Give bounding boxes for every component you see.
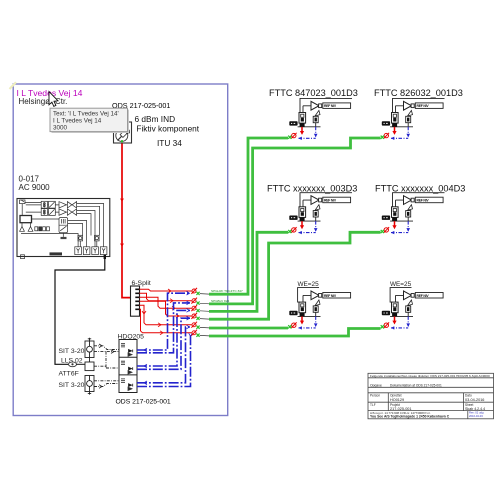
svg-text:03-04-2016: 03-04-2016: [465, 398, 484, 402]
svg-text:Person: Person: [370, 394, 380, 398]
svg-text:FTTC xxxxxxx_004D3: FTTC xxxxxxx_004D3: [375, 183, 465, 193]
amp triangles row A: [59, 202, 66, 208]
green wire B to FTTC 826032: [209, 138, 381, 304]
svg-text:HO0129: HO0129: [390, 398, 404, 402]
green wire C to FTTC x003: [209, 232, 288, 311]
small dark label: [61, 237, 67, 239]
svg-text:Dokumentation af ODS 217-025-0: Dokumentation af ODS 217-025-001: [390, 383, 442, 387]
svg-text:SIT 3-20: SIT 3-20: [59, 382, 85, 389]
blue bus arrows: [187, 291, 193, 336]
node splice 2: [191, 298, 209, 305]
green wire F to WE25 right: [209, 329, 381, 337]
internal wiring: [22, 203, 59, 220]
power supply rect: [20, 216, 32, 223]
node splice 4: [191, 313, 209, 320]
svg-text:3000: 3000: [53, 124, 68, 131]
amplifier AC9000 detail box: [17, 199, 110, 259]
black dash-dot links SIT->HDO: [94, 346, 119, 387]
HDO205 inner symbols: [121, 344, 133, 391]
svg-text:I L Tvedes Vej 14: I L Tvedes Vej 14: [53, 117, 102, 124]
svg-text:Fiktiv komponent: Fiktiv komponent: [136, 123, 199, 133]
svg-text:LLS 02: LLS 02: [61, 358, 83, 365]
node splice 1: [191, 288, 209, 295]
inner corner box: [20, 200, 26, 204]
svg-text:Skab 4.2,4.4: Skab 4.2,4.4: [465, 407, 485, 411]
link arrows: [99, 344, 114, 388]
equalizer module: [59, 218, 68, 233]
terminal strip: [35, 227, 38, 231]
svg-text:FTTC xxxxxxx_003D3: FTTC xxxxxxx_003D3: [267, 183, 357, 193]
svg-text:ODS 217-025-001: ODS 217-025-001: [116, 399, 171, 406]
red distribution fan: [140, 289, 192, 333]
red wire arrows: [121, 199, 124, 202]
splitter HDO205 box: [119, 340, 137, 393]
svg-text:You See A/S Teglholmsgade 1 24: You See A/S Teglholmsgade 1 2450 Københa…: [370, 415, 450, 419]
svg-text:ITU 34: ITU 34: [157, 138, 182, 148]
green wire E to WE25 left: [209, 327, 288, 330]
main red feeder wire: [122, 144, 131, 298]
red fan arrows: [142, 289, 179, 335]
svg-text:2016-04-03: 2016-04-03: [469, 414, 483, 418]
station boundary box: [13, 84, 228, 416]
svg-text:AC 9000: AC 9000: [19, 183, 51, 192]
filter SIT 3-20 lower: [85, 376, 94, 395]
green wire A to FTTC 847023: [209, 138, 288, 294]
svg-text:SPGBLV 826: SPGBLV 826: [211, 299, 229, 303]
ground triangles: [20, 227, 33, 232]
input filter boxes row A: [41, 201, 47, 208]
splitter 6-Split box: [131, 286, 140, 316]
svg-text:TLF: TLF: [370, 403, 376, 407]
svg-text:SIT 3-20: SIT 3-20: [59, 348, 85, 355]
bottom label: [50, 252, 63, 255]
svg-text:Text: 'I L Tvedes Vej 14': Text: 'I L Tvedes Vej 14': [53, 110, 119, 117]
svg-text:FTTC 826032_001D3: FTTC 826032_001D3: [374, 88, 463, 98]
svg-text:FTTC 847023_001D3: FTTC 847023_001D3: [269, 88, 358, 98]
node splice 6: [191, 330, 209, 337]
test point boxes: [78, 235, 83, 241]
amp triangles row B: [59, 209, 66, 215]
output Y connectors: [75, 247, 107, 255]
svg-text:Helsingør Ctr.: Helsingør Ctr.: [19, 97, 68, 106]
tooltip popup: [50, 108, 129, 133]
svg-text:ATT6F: ATT6F: [59, 370, 79, 377]
svg-text:Følgende installationer/Net-ni: Følgende installationer/Net-niveau tilsl…: [370, 374, 490, 378]
bottom-left junction box: [21, 255, 25, 259]
fictive component U-ITU: [114, 122, 132, 143]
mouse cursor: [49, 92, 58, 107]
attenuator ATT6F: [69, 362, 77, 367]
svg-text:SPGLRF TRGFTC 847: SPGLRF TRGFTC 847: [211, 289, 243, 293]
node splice 5: [191, 322, 209, 329]
green wire D to FTTC x004: [209, 232, 381, 319]
green trunk lines: [209, 138, 381, 336]
corner highlight: [10, 82, 17, 89]
external feed wire from amplifier: [55, 257, 105, 365]
filter SIT 3-20 upper: [85, 338, 94, 358]
filter LLS 02: [85, 358, 94, 371]
input filter boxes row B: [41, 209, 47, 216]
svg-text:Opgave: Opgave: [370, 383, 382, 387]
node splice 3: [191, 305, 209, 312]
blue return bus HDO -> connectors: [137, 293, 193, 386]
